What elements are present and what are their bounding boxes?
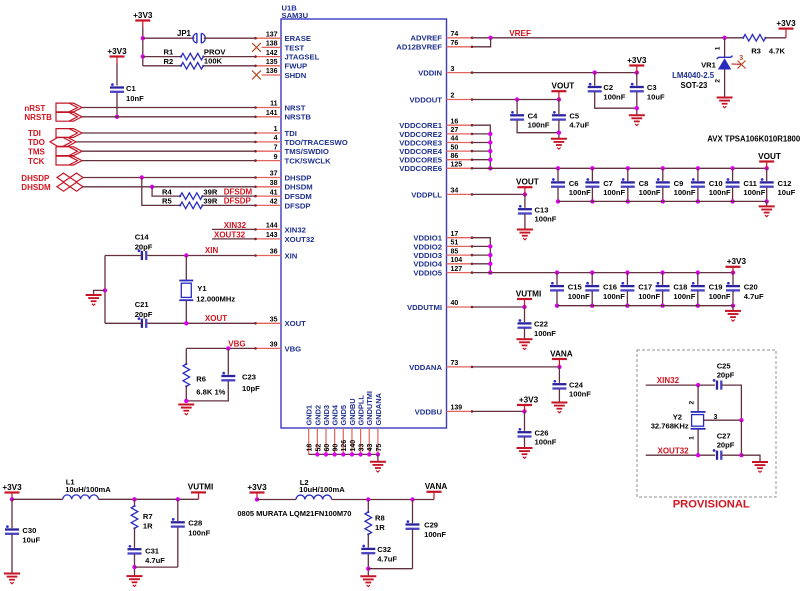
wire +3V3 vertical <box>142 28 144 66</box>
pin 39 VBG <box>255 347 281 349</box>
svg-text:Y2: Y2 <box>673 412 682 421</box>
junction dot VR1 <box>722 36 726 40</box>
junction dot VDDANA <box>557 365 561 369</box>
junction dot VBG <box>226 346 230 350</box>
svg-text:R8: R8 <box>375 514 385 523</box>
svg-text:C5: C5 <box>569 112 579 121</box>
junction dot gnd GNDBU <box>350 452 354 456</box>
svg-text:1R: 1R <box>375 523 385 532</box>
svg-text:C10: C10 <box>709 179 723 188</box>
svg-text:C26: C26 <box>535 429 549 438</box>
junction dot C3 <box>635 70 639 74</box>
junction dot vddcore <box>488 132 492 136</box>
svg-text:20pF: 20pF <box>717 441 735 450</box>
svg-text:42: 42 <box>270 199 278 206</box>
junction dot advref <box>488 36 492 40</box>
pin 60 GND3 <box>325 428 327 454</box>
crystal Y1 12.000MHz <box>185 256 187 281</box>
svg-text:TDO: TDO <box>28 138 45 147</box>
pin 52 GND2 <box>316 428 318 454</box>
ground C5 <box>551 138 567 140</box>
ground C22 <box>517 338 533 340</box>
svg-text:+3V3: +3V3 <box>776 19 796 28</box>
svg-text:142: 142 <box>266 50 278 57</box>
wire TMS to pin 7 <box>82 150 255 152</box>
ground C30 <box>4 573 20 575</box>
svg-text:16: 16 <box>451 118 459 125</box>
svg-text:R4: R4 <box>162 187 172 196</box>
svg-text:32.768KHz: 32.768KHz <box>651 422 689 431</box>
capacitor C22 100nF <box>524 307 526 322</box>
pin 125 VDDCORE6 <box>447 167 473 169</box>
svg-text:2: 2 <box>689 401 696 405</box>
wire C31 bottom <box>134 554 136 576</box>
svg-text:75: 75 <box>376 444 383 452</box>
svg-text:138: 138 <box>266 41 278 48</box>
svg-text:2: 2 <box>451 93 455 100</box>
svg-text:10nF: 10nF <box>126 94 144 103</box>
svg-text:10uH/100mA: 10uH/100mA <box>65 485 111 494</box>
svg-text:GNDUTMI: GNDUTMI <box>365 391 374 426</box>
pin 7 TMS/SWDIO <box>255 150 281 152</box>
svg-text:C16: C16 <box>603 283 617 292</box>
svg-text:17: 17 <box>451 231 459 238</box>
wire C28 bottom <box>177 527 179 567</box>
svg-text:100nF: 100nF <box>569 188 591 197</box>
pin 1 TDI <box>255 132 281 134</box>
junction dot XIN <box>184 253 188 257</box>
ground C20 <box>725 310 741 312</box>
svg-text:C28: C28 <box>188 519 202 528</box>
svg-text:39R: 39R <box>203 197 217 206</box>
svg-text:35: 35 <box>270 317 278 324</box>
svg-text:R6: R6 <box>196 375 206 384</box>
capacitor C5 4.7uF <box>558 100 560 115</box>
svg-text:139: 139 <box>451 405 463 412</box>
pin 73 VDDANA <box>447 366 473 368</box>
svg-text:+3V3: +3V3 <box>247 483 267 492</box>
junction dot vddcore <box>488 166 492 170</box>
svg-text:39R: 39R <box>203 187 217 196</box>
wire XOUT row <box>147 322 255 324</box>
svg-text:C7: C7 <box>603 179 613 188</box>
svg-text:ADVREF: ADVREF <box>410 34 442 43</box>
svg-text:C2: C2 <box>603 83 613 92</box>
svg-text:C13: C13 <box>535 206 549 215</box>
wire DHSDP to pin 37 <box>83 177 255 179</box>
svg-text:VDDPLL: VDDPLL <box>411 190 442 199</box>
wire to C1 <box>116 64 118 86</box>
junction dot gnd GNDANA <box>376 452 380 456</box>
svg-text:JTAGSEL: JTAGSEL <box>285 53 320 62</box>
junction dot vddio <box>488 244 492 248</box>
svg-text:GNDBU: GNDBU <box>348 398 357 425</box>
ground crystal <box>86 294 102 296</box>
ground C12 <box>759 205 775 207</box>
svg-text:+3V3: +3V3 <box>627 56 647 65</box>
junction dot DHSDP <box>140 175 144 179</box>
svg-text:C15: C15 <box>568 283 583 292</box>
junction dot vddcore <box>488 158 492 162</box>
svg-text:+3V3: +3V3 <box>2 483 22 492</box>
resistor R7 1R <box>134 499 136 506</box>
wire DHSDM to R4 <box>152 187 180 196</box>
pin 37 DHSDP <box>255 177 281 179</box>
wire NRSTB to pin 141 <box>82 116 255 118</box>
junction dot NRSTB <box>115 115 119 119</box>
svg-text:76: 76 <box>451 40 459 47</box>
wire XOUT32 prov <box>646 454 715 456</box>
junction dot L2 in <box>255 497 259 501</box>
wire gnd stem C12 <box>766 201 768 206</box>
wire R8 bottom <box>367 534 369 547</box>
wire VDDPLL <box>473 193 525 195</box>
wire VDDCORE rail <box>473 167 767 169</box>
svg-text:XOUT: XOUT <box>205 314 227 323</box>
svg-text:1: 1 <box>715 46 722 50</box>
svg-text:C24: C24 <box>569 381 584 390</box>
wire C32 to C29 <box>368 568 412 570</box>
svg-text:100nF: 100nF <box>673 292 695 301</box>
svg-text:SAM3U: SAM3U <box>282 11 309 20</box>
pin 4 TDO/TRACESWO <box>255 141 281 143</box>
wire C26 bottom <box>524 437 526 448</box>
pin 143 XOUT32 <box>255 238 281 240</box>
svg-text:100nF: 100nF <box>638 292 660 301</box>
pin 35 XOUT <box>255 322 281 324</box>
svg-text:XIN32: XIN32 <box>285 225 306 234</box>
svg-text:100nF: 100nF <box>535 215 557 224</box>
junction dot left <box>103 288 107 292</box>
wire XIN32 prov <box>646 384 715 386</box>
wire R4 to pin 41 <box>202 195 255 197</box>
svg-text:6.8K 1%: 6.8K 1% <box>196 387 225 396</box>
pin 137 ERASE <box>255 37 281 39</box>
wire C3 bottom <box>636 92 638 115</box>
svg-text:2: 2 <box>715 79 722 83</box>
svg-text:85: 85 <box>451 248 459 255</box>
svg-text:VDDANA: VDDANA <box>409 363 442 372</box>
svg-text:100nF: 100nF <box>568 292 590 301</box>
svg-text:VDDIO5: VDDIO5 <box>413 269 442 278</box>
junction dot C4 <box>515 97 519 101</box>
junction dot VDDPLL <box>523 192 527 196</box>
diode VR1 LM4040-2.5 <box>724 38 726 57</box>
svg-text:50: 50 <box>451 144 459 151</box>
ground C3 <box>629 114 645 116</box>
svg-text:C9: C9 <box>674 179 684 188</box>
pin 27 VDDCORE2 <box>447 133 473 135</box>
pin 16 VDDCORE1 <box>447 124 473 126</box>
capacitor C30 10uF <box>11 499 13 528</box>
pin 127 VDDIO5 <box>447 272 473 274</box>
svg-text:GND3: GND3 <box>322 405 331 426</box>
svg-text:3: 3 <box>739 55 743 62</box>
junction dot xtal top <box>696 383 700 387</box>
wire C1 to NRSTB <box>116 93 118 117</box>
wire JP1 to pin 137 <box>204 37 255 39</box>
svg-text:10uF: 10uF <box>647 92 665 101</box>
junction dot C4C5 gnd <box>557 131 561 135</box>
svg-text:DHSDM: DHSDM <box>21 183 51 192</box>
wire VDDBU <box>473 410 525 412</box>
wire R1 to pin 142 <box>203 56 255 58</box>
svg-text:JP1: JP1 <box>177 29 192 38</box>
svg-text:C8: C8 <box>639 179 649 188</box>
capacitor C2 100nF <box>594 73 596 86</box>
wire R3 to +3V3 <box>766 37 787 39</box>
wire C21 left <box>105 322 142 324</box>
svg-text:C11: C11 <box>743 179 757 188</box>
wire gnd stem <box>377 454 379 461</box>
port TDI <box>56 129 82 138</box>
wire C23 bottom <box>186 381 228 401</box>
junction dot C5 <box>557 97 561 101</box>
svg-text:NRST: NRST <box>285 103 306 112</box>
wire crystal left vertical <box>104 256 106 324</box>
pin 85 VDDIO3 <box>447 254 473 256</box>
svg-text:VDDOUT: VDDOUT <box>410 95 443 104</box>
capacitor C13 100nF <box>524 194 526 208</box>
svg-text:43: 43 <box>367 444 374 452</box>
svg-text:VBG: VBG <box>228 339 245 348</box>
wire XIN row <box>147 255 255 257</box>
svg-text:VDDIN: VDDIN <box>418 69 442 78</box>
svg-text:73: 73 <box>451 360 459 367</box>
wire R7 bottom <box>134 528 136 548</box>
wire DHSDP to R5 <box>142 178 180 206</box>
svg-text:VANA: VANA <box>425 482 448 491</box>
svg-text:VUTMI: VUTMI <box>188 483 213 492</box>
junction dot vddio <box>488 253 492 257</box>
pin 40 VDDUTMI <box>447 306 473 308</box>
svg-text:R5: R5 <box>162 197 172 206</box>
svg-text:4.7uF: 4.7uF <box>377 555 397 564</box>
capacitor C4 100nF <box>516 100 518 115</box>
svg-text:C23: C23 <box>242 373 256 382</box>
svg-text:C30: C30 <box>22 526 36 535</box>
svg-text:125: 125 <box>451 162 463 169</box>
svg-text:DFSDP: DFSDP <box>285 201 311 210</box>
junction dot C29 <box>410 497 414 501</box>
svg-text:C20: C20 <box>744 283 758 292</box>
capacitor C10 100nF <box>696 166 700 170</box>
svg-text:XIN: XIN <box>285 251 298 260</box>
ground C26 <box>517 447 533 449</box>
svg-text:52: 52 <box>315 444 322 452</box>
svg-text:1: 1 <box>274 126 278 133</box>
svg-text:136: 136 <box>266 68 278 75</box>
wire GND bus <box>309 453 378 455</box>
pin 34 VDDPLL <box>447 193 473 195</box>
svg-text:100nF: 100nF <box>534 329 556 338</box>
pin 2 VDDOUT <box>447 99 473 101</box>
svg-text:TMS: TMS <box>28 148 46 157</box>
svg-text:GNDANA: GNDANA <box>374 392 383 425</box>
pin 11 NRST <box>255 107 281 109</box>
wire C25 right <box>722 385 742 420</box>
svg-text:10uF: 10uF <box>778 188 796 197</box>
junction dot C2 <box>593 70 597 74</box>
junction dot C27 <box>739 453 743 457</box>
svg-text:4.7K: 4.7K <box>769 46 786 55</box>
svg-text:39: 39 <box>270 342 278 349</box>
svg-text:137: 137 <box>266 31 278 38</box>
svg-text:C6: C6 <box>569 179 579 188</box>
wire C14 left <box>105 255 142 257</box>
svg-text:R1: R1 <box>164 48 174 57</box>
svg-text:74: 74 <box>451 31 459 38</box>
pin 44 VDDCORE3 <box>447 142 473 144</box>
svg-text:C17: C17 <box>638 283 652 292</box>
svg-text:DFSDM: DFSDM <box>285 192 312 201</box>
pin 36 XIN <box>255 255 281 257</box>
wire C2 bottom <box>595 92 637 108</box>
svg-text:100nF: 100nF <box>603 188 625 197</box>
pin 74 ADVREF <box>447 37 473 39</box>
pin 18 GND1 <box>308 428 310 454</box>
port DHSDM <box>57 182 70 191</box>
junction dot C31 gnd <box>132 565 136 569</box>
wire R5 to pin 42 <box>202 204 255 206</box>
svg-text:VDDIO3: VDDIO3 <box>413 251 442 260</box>
svg-text:C25: C25 <box>717 362 732 371</box>
svg-text:VDDBU: VDDBU <box>415 407 443 416</box>
pin 86 VDDCORE5 <box>447 159 473 161</box>
pin 141 NRSTB <box>255 116 281 118</box>
junction dot vddcore <box>488 140 492 144</box>
capacitor C3 10uF <box>636 73 638 86</box>
svg-text:VDDCORE6: VDDCORE6 <box>399 164 442 173</box>
svg-text:R3: R3 <box>751 46 761 55</box>
ground L2 <box>360 575 376 577</box>
capacitor C15 100nF <box>555 270 559 274</box>
svg-text:C12: C12 <box>778 179 792 188</box>
wire stub XIN32 <box>212 228 255 230</box>
svg-text:XOUT32: XOUT32 <box>285 235 315 244</box>
svg-text:VR1: VR1 <box>701 61 717 70</box>
svg-text:4.7uF: 4.7uF <box>145 556 165 565</box>
resistor R3 4.7K <box>743 35 765 42</box>
svg-text:VDDIO2: VDDIO2 <box>413 242 442 251</box>
wire to ground <box>94 290 105 294</box>
junction dot vddcore <box>488 149 492 153</box>
svg-text:R7: R7 <box>143 512 153 521</box>
pin 75 GNDANA <box>377 428 379 454</box>
svg-text:NRSTB: NRSTB <box>24 113 52 122</box>
svg-text:18: 18 <box>307 444 314 452</box>
svg-text:1: 1 <box>689 436 696 440</box>
svg-text:TDI: TDI <box>28 129 41 138</box>
svg-text:C3: C3 <box>647 83 657 92</box>
svg-text:VOUT: VOUT <box>552 82 575 91</box>
junction dot pin3 <box>739 418 743 422</box>
svg-text:VREF: VREF <box>509 29 531 38</box>
wire C4 bottom <box>517 120 559 133</box>
svg-text:TCK: TCK <box>28 157 45 166</box>
svg-text:9: 9 <box>274 154 278 161</box>
pin 138 TEST <box>262 46 282 48</box>
port NRSTB <box>56 112 82 121</box>
wire to R2 <box>143 65 181 67</box>
svg-text:FWUP: FWUP <box>285 62 308 71</box>
svg-text:SHDN: SHDN <box>285 71 307 80</box>
junction dot gnd GND4 <box>332 452 336 456</box>
svg-text:VOUT: VOUT <box>758 152 781 161</box>
wire TCK to pin 9 <box>82 160 255 162</box>
svg-text:DHSDP: DHSDP <box>21 174 50 183</box>
svg-text:20pF: 20pF <box>717 371 735 380</box>
svg-text:104: 104 <box>451 257 463 264</box>
pin 136 SHDN <box>262 74 282 76</box>
svg-text:100nF: 100nF <box>709 292 731 301</box>
svg-text:XOUT: XOUT <box>285 319 307 328</box>
svg-text:AD12BVREF: AD12BVREF <box>396 43 442 52</box>
svg-text:3: 3 <box>451 66 455 73</box>
svg-text:GND4: GND4 <box>331 404 340 425</box>
wire DHSDM to pin 38 <box>83 186 255 188</box>
svg-text:51: 51 <box>451 240 459 247</box>
svg-text:TEST: TEST <box>285 43 305 52</box>
junction dot C2C3 gnd <box>635 106 639 110</box>
wire to ground prov <box>741 455 760 462</box>
capacitor C1 10nF <box>110 86 124 88</box>
svg-text:DFSDM: DFSDM <box>224 187 253 196</box>
svg-text:TMS/SWDIO: TMS/SWDIO <box>285 147 329 156</box>
svg-text:86: 86 <box>451 153 459 160</box>
svg-text:90: 90 <box>333 444 340 452</box>
op IC U1B SAM3U outline <box>281 19 447 428</box>
svg-text:C31: C31 <box>145 547 160 556</box>
junction dot gnd GND5 <box>341 452 345 456</box>
svg-text:20pF: 20pF <box>135 242 153 251</box>
pin 144 XIN32 <box>255 228 281 230</box>
ground R7 <box>127 575 143 577</box>
wire L2 row right <box>332 499 434 501</box>
pin 126 GND5 <box>342 428 344 454</box>
svg-text:TDO/TRACESWO: TDO/TRACESWO <box>285 138 348 147</box>
pin 142 JTAGSEL <box>255 56 281 58</box>
svg-text:100nF: 100nF <box>743 188 765 197</box>
svg-text:C4: C4 <box>528 112 538 121</box>
svg-text:Y1: Y1 <box>197 284 207 293</box>
svg-text:VDDIO1: VDDIO1 <box>413 234 442 243</box>
svg-text:GNDPLL: GNDPLL <box>357 395 366 426</box>
svg-text:VBG: VBG <box>285 344 302 353</box>
wire C5 bottom <box>558 120 560 138</box>
junction dot gnd GNDPLL <box>358 452 362 456</box>
wire C13 bottom <box>524 214 526 229</box>
svg-text:GND1: GND1 <box>305 405 314 426</box>
ground C24 <box>551 402 567 404</box>
wire to R6 <box>185 348 187 364</box>
capacitor C31 4.7uF <box>128 548 142 550</box>
svg-text:20pF: 20pF <box>135 310 153 319</box>
svg-text:VOUT: VOUT <box>516 178 539 187</box>
svg-text:VDDCORE1: VDDCORE1 <box>399 121 442 130</box>
junction dot VDDUTMI <box>522 305 526 309</box>
capacitor C26 100nF <box>524 411 526 431</box>
junction dot gnd GND3 <box>324 452 328 456</box>
svg-text:VDDIO4: VDDIO4 <box>413 260 442 269</box>
svg-text:C18: C18 <box>673 283 687 292</box>
capacitor C18 100nF <box>660 270 664 274</box>
capacitor C20 4.7uF <box>731 270 735 274</box>
wire VDDCORE bus <box>473 125 491 168</box>
svg-text:34: 34 <box>451 188 459 195</box>
svg-text:XOUT32: XOUT32 <box>214 231 246 240</box>
svg-text:R2: R2 <box>164 57 174 66</box>
